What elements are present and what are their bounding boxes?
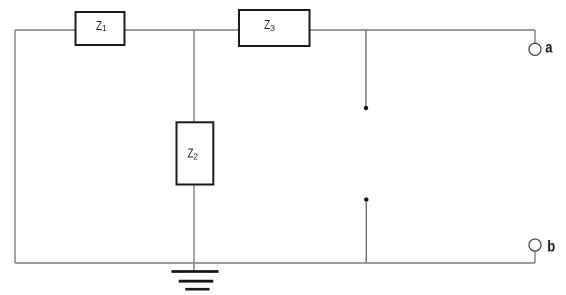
node: upper junction dot — [364, 106, 368, 110]
node: lower junction dot — [364, 197, 368, 201]
wire: middle vertical branch through Z2 down to ground — [193, 30, 195, 271]
ground bar 3 — [185, 288, 209, 291]
impedance Z3 box — [239, 10, 310, 46]
svg-text:1: 1 — [102, 23, 107, 33]
svg-text:b: b — [547, 239, 555, 256]
impedance Z1 box — [76, 12, 125, 45]
wire: open branch lower segment x=366 — [365, 201, 367, 263]
svg-text:3: 3 — [270, 23, 275, 33]
terminal b circle — [529, 239, 541, 251]
wire: stub to terminal a — [534, 30, 536, 43]
svg-text:2: 2 — [193, 151, 198, 161]
wire: bottom rail y=263 — [15, 262, 535, 264]
wire: stub to terminal b — [534, 251, 536, 263]
ground bar 2 — [179, 280, 214, 283]
impedance Z2 box — [177, 122, 214, 184]
terminal a circle — [529, 43, 541, 55]
wire: top rail y=30 from left corner to terminal a corner — [15, 29, 535, 31]
ground bar 1 — [172, 270, 219, 273]
svg-text:a: a — [545, 40, 552, 57]
wire: left vertical rail x=15 — [14, 30, 16, 263]
wire: open branch upper segment x=366 — [365, 30, 367, 107]
